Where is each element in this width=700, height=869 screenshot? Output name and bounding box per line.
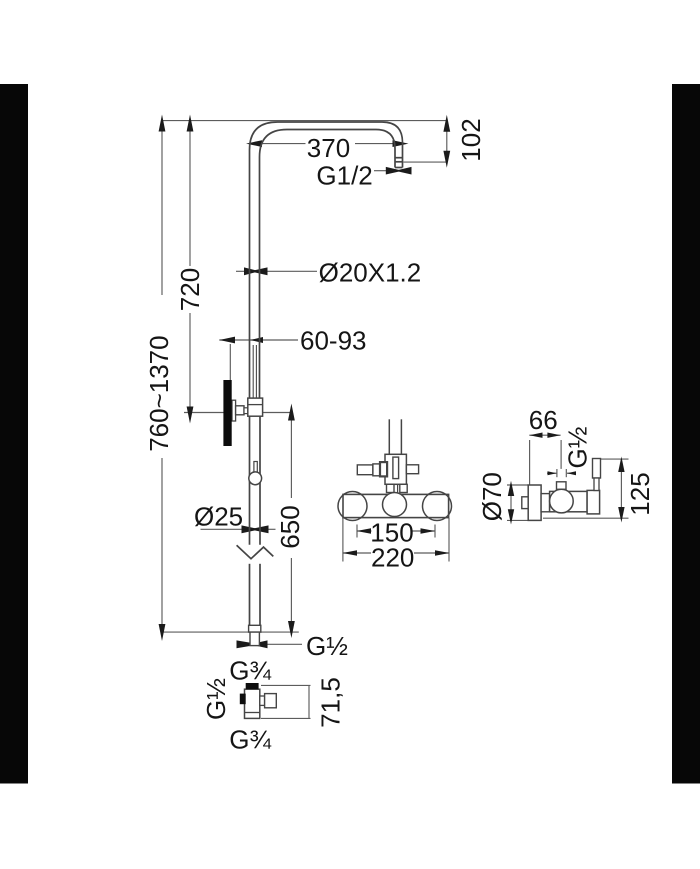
svg-text:125: 125 — [625, 472, 655, 515]
svg-text:G1/2: G1/2 — [316, 160, 372, 190]
svg-text:G½: G½ — [563, 427, 593, 469]
svg-text:Ø25: Ø25 — [194, 502, 243, 532]
svg-text:Ø20X1.2: Ø20X1.2 — [319, 258, 422, 288]
svg-text:66: 66 — [529, 405, 558, 435]
svg-text:G½: G½ — [201, 678, 231, 720]
svg-text:60-93: 60-93 — [300, 326, 367, 356]
svg-text:Ø70: Ø70 — [477, 472, 507, 521]
svg-text:720: 720 — [175, 268, 205, 311]
svg-text:220: 220 — [371, 543, 414, 573]
svg-text:G¾: G¾ — [229, 656, 271, 686]
svg-text:370: 370 — [307, 133, 350, 163]
svg-text:102: 102 — [456, 118, 486, 161]
svg-text:650: 650 — [275, 505, 305, 548]
svg-text:71,5: 71,5 — [316, 677, 346, 728]
svg-text:G¾: G¾ — [229, 725, 271, 755]
svg-text:G½: G½ — [306, 631, 348, 661]
svg-text:760~1370: 760~1370 — [144, 335, 174, 451]
